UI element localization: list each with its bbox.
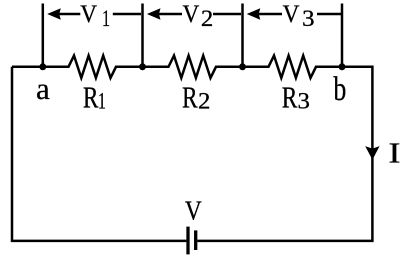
- svg-text:1: 1: [98, 89, 106, 114]
- svg-text:a: a: [36, 71, 50, 106]
- svg-text:3: 3: [302, 7, 314, 32]
- svg-text:3: 3: [298, 89, 310, 114]
- svg-text:2: 2: [201, 7, 213, 32]
- svg-text:V: V: [183, 0, 200, 28]
- svg-text:I: I: [388, 138, 400, 170]
- svg-text:2: 2: [198, 89, 210, 114]
- svg-text:V: V: [185, 195, 202, 226]
- svg-text:R: R: [83, 81, 99, 115]
- svg-text:R: R: [282, 81, 298, 115]
- svg-text:b: b: [333, 70, 346, 108]
- svg-text:V: V: [283, 0, 300, 28]
- svg-text:R: R: [182, 81, 198, 115]
- svg-text:V: V: [80, 0, 97, 28]
- svg-text:1: 1: [102, 7, 110, 32]
